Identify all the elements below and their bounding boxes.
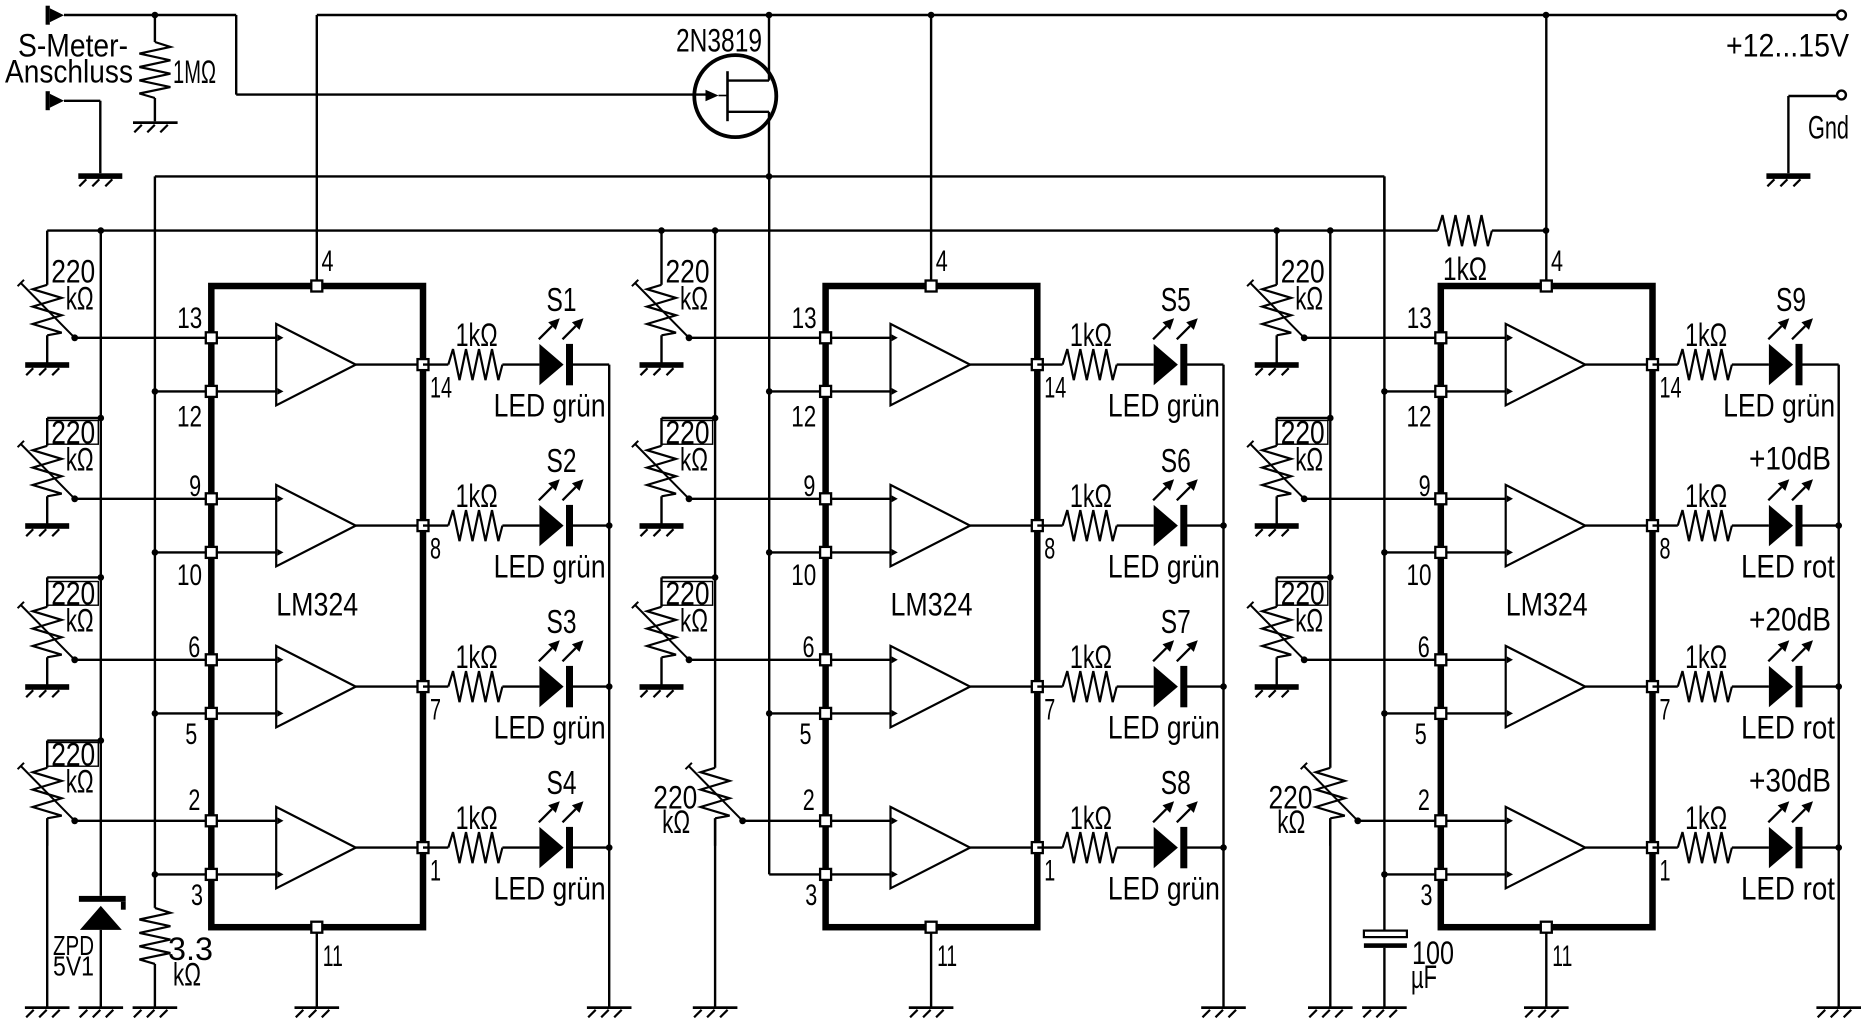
wire input arrow to corner (64, 14, 236, 16)
wire resistor to LED b2 r1 (1117, 524, 1154, 526)
op-amp U2A triangle (891, 324, 971, 405)
svg-text:1kΩ: 1kΩ (1070, 317, 1112, 353)
svg-text:12: 12 (1407, 400, 1432, 433)
IC3 pin 1 (1647, 842, 1658, 853)
junction chain pin b2 r2 (766, 710, 773, 717)
op-amp U2C triangle (891, 646, 971, 727)
trimmer P2 b2 (220k) (632, 418, 692, 524)
svg-text:1kΩ: 1kΩ (1070, 478, 1112, 514)
label 1k b3 r2 (1685, 639, 1727, 675)
LED S2 (539, 505, 573, 546)
label P4 220 b2 (653, 779, 697, 815)
label pin 14 b3 (1660, 372, 1682, 405)
svg-text:11: 11 (1552, 940, 1572, 973)
LED arrows S4 (539, 801, 584, 822)
label LED gruen b1 r2 (494, 710, 606, 746)
wire opamp out to pin 14 b2 (970, 363, 1037, 365)
resistor 1M lower lead (154, 98, 156, 121)
svg-text:8: 8 (430, 533, 441, 566)
junction ref rail/pot1 b2 (658, 227, 665, 234)
IC3 pin4 wire to +12V (1545, 15, 1547, 286)
LED arrows S7 (1153, 640, 1198, 661)
IC2 pin 1 (1032, 842, 1043, 853)
wire LED to cathode bus b3 r3 (1801, 846, 1838, 848)
label 1k b2 r0 (1070, 317, 1112, 353)
U2A +input mark (892, 334, 898, 341)
label LM324 IC1 (276, 587, 358, 623)
IC3 non-inv input chain wire (1383, 176, 1385, 930)
svg-text:6: 6 (803, 631, 815, 664)
label Anschluss (5, 54, 133, 90)
label LED gruen b1 r3 (494, 871, 606, 907)
wire LED to cathode bus b3 r2 (1801, 685, 1838, 687)
Gnd terminal (1837, 91, 1846, 100)
wire jog to P3 b1 (47, 576, 101, 578)
junction bus b2 r3 (1220, 844, 1227, 851)
svg-text:S2: S2 (547, 442, 577, 479)
label P3 220 b2 (666, 575, 710, 611)
Q1 source stub (728, 111, 770, 113)
wire -input pin3 b2 (826, 873, 891, 875)
pot chain wire block1 (100, 231, 102, 741)
svg-text:kΩ: kΩ (1277, 804, 1305, 840)
label pin 7 b3 (1660, 694, 1671, 727)
svg-text:6: 6 (1418, 631, 1430, 664)
svg-text:S9: S9 (1776, 281, 1806, 318)
svg-text:1MΩ: 1MΩ (173, 54, 216, 90)
zener wire from pot chain (100, 741, 102, 896)
Gnd wire (1788, 96, 1837, 173)
transistor Q1 2N3819 label (676, 23, 762, 59)
label S-Meter- (18, 28, 128, 64)
wire chain to -input b3 r0 (1384, 390, 1440, 392)
svg-text:kΩ: kΩ (680, 280, 708, 316)
signal rail drop to IC3 chain (1383, 176, 1385, 230)
label P2 kOhm b1 (66, 441, 94, 477)
label pin 9 b1 (189, 470, 201, 503)
junction pot chain P2 b1 (98, 415, 105, 422)
label S9 (1776, 281, 1806, 318)
frame P3 value b1 (47, 582, 98, 606)
IC2 pin 4 (926, 281, 937, 292)
label 1k b1 r2 (456, 639, 498, 675)
label pin 3 b1 (191, 879, 203, 912)
op-amp U1C triangle (276, 646, 356, 727)
svg-text:4: 4 (1551, 245, 1563, 278)
label pin 14 b2 (1044, 372, 1066, 405)
svg-text:1kΩ: 1kΩ (1070, 800, 1112, 836)
junction ref rail/pot1 b3 (1273, 227, 1280, 234)
IC3 pin 2 (1435, 815, 1446, 826)
frame P3 value b3 (1277, 582, 1328, 606)
label pin 10 b3 (1407, 559, 1432, 592)
IC1 pin 11 (311, 922, 322, 933)
svg-text:LM324: LM324 (1506, 587, 1588, 623)
IC2 pin 10 (820, 547, 831, 558)
label S3 (547, 603, 577, 640)
label pin 13 b2 (792, 302, 817, 335)
frame P2 value b1 (47, 421, 98, 445)
junction chain pin b3 r3 (1381, 871, 1388, 878)
zener wire to ground (100, 930, 102, 1007)
trimmer P4 b1 (220k) (18, 741, 79, 846)
svg-text:kΩ: kΩ (66, 763, 94, 799)
wire wiper P3 to pin b1 (75, 659, 212, 661)
IC2 pin4 wire to +12V (930, 15, 932, 286)
junction rail/1k-IC3 (1543, 12, 1550, 19)
ground cathode bus b1 (587, 1006, 632, 1017)
op-amp IC3 LM324 box (1441, 286, 1653, 927)
LED S3 (539, 666, 573, 707)
ground under P2 b3 (1255, 523, 1299, 536)
IC3 pin 4 (1541, 281, 1552, 292)
svg-text:S3: S3 (547, 603, 577, 640)
capacitor C1 100u bottom plate (1364, 943, 1407, 948)
IC3 pin11 wire to ground (1545, 927, 1547, 1006)
svg-text:S5: S5 (1161, 281, 1191, 318)
svg-text:7: 7 (1044, 694, 1055, 727)
wire LED to cathode bus b1 r0 (572, 363, 609, 365)
label LED gruen b2 r0 (1108, 388, 1220, 424)
IC3 pin 10 (1435, 547, 1446, 558)
label pin 10 b2 (791, 559, 816, 592)
wire +input pin2 b2 (826, 820, 891, 822)
ground under P1 b2 (640, 362, 684, 375)
IC3 pin 8 (1647, 520, 1658, 531)
label +10dB (1749, 441, 1831, 477)
svg-text:kΩ: kΩ (1295, 280, 1323, 316)
U1B -input mark (277, 549, 283, 556)
svg-text:LED rot: LED rot (1741, 871, 1835, 907)
resistor 1k out b3 r2 (1678, 671, 1732, 702)
label pin 4 IC3 (1551, 245, 1563, 278)
wire opamp out to pin 1 b3 (1585, 846, 1652, 848)
wire jog to P4 b1 (47, 739, 101, 741)
junction chain pin b1 r2 (152, 710, 159, 717)
IC1 pin 2 (206, 815, 217, 826)
frame P3 value b2 (662, 582, 713, 606)
label pin 3 b3 (1421, 879, 1433, 912)
wire chain to -input b1 r2 (155, 712, 211, 714)
frame P4 value b1 (47, 743, 98, 767)
resistor 1k out b1 r1 (448, 510, 502, 541)
wire pin1 to resistor b3 (1653, 846, 1678, 848)
junction chain pin b1 r3 (152, 871, 159, 878)
wire +input pin13 b2 (826, 337, 891, 339)
label 1k top right (1443, 251, 1487, 287)
U3A +input mark (1507, 334, 1513, 341)
svg-text:2: 2 (188, 784, 200, 817)
svg-text:1kΩ: 1kΩ (1685, 800, 1727, 836)
wire +input pin6 b3 (1441, 659, 1506, 661)
svg-text:LED grün: LED grün (494, 871, 606, 907)
pot chain wire block3 (1329, 231, 1331, 768)
svg-text:LED grün: LED grün (494, 549, 606, 585)
junction chain pin b3 r0 (1381, 388, 1388, 395)
label LED gruen b3 r0 (1723, 388, 1835, 424)
svg-text:3: 3 (805, 879, 817, 912)
svg-text:Anschluss: Anschluss (5, 54, 133, 90)
wire resistor to LED b3 r1 (1732, 524, 1769, 526)
svg-text:LED grün: LED grün (494, 388, 606, 424)
junction chain pin b1 r0 (152, 388, 159, 395)
svg-text:9: 9 (1419, 470, 1431, 503)
wire opamp out to pin 14 b1 (356, 363, 423, 365)
trimmer P3 b2 (220k) (632, 577, 692, 684)
LED arrows S8 (1153, 801, 1198, 822)
svg-text:S4: S4 (547, 764, 577, 801)
svg-text:1: 1 (1044, 855, 1055, 888)
label P1 kOhm b2 (680, 280, 708, 316)
svg-text:13: 13 (177, 302, 202, 335)
wire resistor to LED b1 r0 (502, 363, 539, 365)
label 1k b2 r3 (1070, 800, 1112, 836)
label pin 2 b3 (1418, 784, 1430, 817)
label LM324 IC2 (891, 587, 973, 623)
wire LED to cathode bus b3 r0 (1801, 363, 1838, 365)
svg-text:LED grün: LED grün (1723, 388, 1835, 424)
wire wiper P2 to pin b1 (75, 498, 212, 500)
wire opamp out to pin 8 b3 (1585, 524, 1652, 526)
ground under cap (1362, 1006, 1407, 1017)
label LED rot b3 r2 (1741, 710, 1835, 746)
label pin 12 b3 (1407, 400, 1432, 433)
wire chain corner to pin3 b2 (769, 873, 825, 875)
IC1 pin11 wire to ground (316, 927, 318, 1006)
junction pot chain P3 b3 (1327, 574, 1334, 581)
label ZPD (53, 930, 94, 961)
IC3 pin 9 (1435, 493, 1446, 504)
label P2 kOhm b3 (1295, 441, 1323, 477)
svg-text:S6: S6 (1161, 442, 1191, 479)
Q1 drain wire to +12V rail (768, 15, 770, 81)
trimmer P2 b3 (220k) (1247, 418, 1308, 524)
svg-text:LED grün: LED grün (1108, 871, 1220, 907)
LED S4 (539, 827, 573, 868)
label pin 13 b1 (177, 302, 202, 335)
label pin 11 IC3 (1552, 940, 1572, 973)
zener D1 anode triangle (80, 906, 122, 930)
label S2 (547, 442, 577, 479)
LED S8 (1154, 827, 1188, 868)
LED arrows S9 (1768, 318, 1813, 339)
ground at pin11 IC2 (909, 1006, 954, 1017)
frame P2 value b2 (662, 421, 713, 445)
wire down to JFET gate level (235, 15, 237, 95)
wire wiper P4 to pin b3 (1358, 820, 1441, 822)
wire jog to P2 b1 (47, 417, 101, 419)
svg-text:+20dB: +20dB (1749, 602, 1831, 638)
wire pin14 to resistor b1 (423, 363, 448, 365)
label pin 5 b2 (800, 718, 812, 751)
label P2 kOhm b2 (680, 441, 708, 477)
wire jog to P3 b3 (1277, 576, 1331, 578)
IC3 pin 14 (1647, 359, 1658, 370)
svg-text:+30dB: +30dB (1749, 763, 1831, 799)
label pin 3 b2 (805, 879, 817, 912)
junction chain pin b2 r0 (766, 388, 773, 395)
wire pin14 to resistor b2 (1037, 363, 1062, 365)
trimmer P3 b3 (220k) (1247, 577, 1308, 684)
wire -input pin12 b1 (211, 390, 276, 392)
svg-text:6: 6 (188, 631, 200, 664)
trimmer P3 b1 (220k) (18, 577, 79, 684)
label S8 (1161, 764, 1191, 801)
wire chain to -input b2 r0 (769, 390, 825, 392)
label pin 12 b2 (791, 400, 816, 433)
label P3 kOhm b2 (680, 602, 708, 638)
svg-text:kΩ: kΩ (173, 957, 201, 993)
input ground reference arrow (46, 91, 64, 110)
LED S6 (1154, 505, 1188, 546)
LED arrows S6 (1153, 479, 1198, 500)
wire 1k to +12V drop (1492, 229, 1546, 231)
U1C -input mark (277, 710, 283, 717)
ground at pin11 IC1 (295, 1006, 340, 1017)
wire wiper P2 to pin b3 (1304, 498, 1441, 500)
label pin 6 b3 (1418, 631, 1430, 664)
junction bus b1 r1 (606, 522, 613, 529)
svg-text:8: 8 (1660, 533, 1671, 566)
IC3 pin 7 (1647, 681, 1658, 692)
LED +20dB (1769, 666, 1803, 707)
wire chain to -input b1 r3 (155, 873, 211, 875)
ground under P4 b1 (25, 1006, 70, 1017)
op-amp U1A triangle (276, 324, 356, 405)
junction bus b2 r1 (1220, 522, 1227, 529)
ground at pin11 IC3 (1524, 1006, 1569, 1017)
wire P4 b1 to ground (46, 818, 48, 1006)
wire resistor to LED b3 r0 (1732, 363, 1769, 365)
svg-text:7: 7 (1660, 694, 1671, 727)
op-amp U3C triangle (1506, 646, 1586, 727)
label pin 4 IC1 (322, 245, 334, 278)
svg-text:kΩ: kΩ (66, 602, 94, 638)
U3A -input mark (1507, 388, 1513, 395)
wire opamp out to pin 7 b2 (970, 685, 1037, 687)
label P4 220 b3 (1269, 779, 1313, 815)
junction bus b2 r2 (1220, 683, 1227, 690)
svg-text:11: 11 (937, 940, 957, 973)
wire LED to cathode bus b1 r3 (572, 846, 609, 848)
wire jog to P2 b2 (662, 417, 716, 419)
svg-text:2: 2 (1418, 784, 1430, 817)
wire resistor to LED b3 r2 (1732, 685, 1769, 687)
label pin 5 b1 (185, 718, 197, 751)
resistor 1k out b3 r3 (1678, 832, 1732, 863)
resistor R 1M lead (154, 15, 156, 42)
LED S9 (1769, 344, 1803, 385)
label +30dB (1749, 763, 1831, 799)
svg-text:Gnd: Gnd (1808, 110, 1849, 146)
svg-text:3: 3 (191, 879, 203, 912)
svg-text:kΩ: kΩ (680, 602, 708, 638)
wire -input pin10 b2 (826, 551, 891, 553)
ground under 1M (133, 121, 178, 132)
resistor 3.3k zigzag (139, 908, 170, 964)
resistor 1M zigzag (139, 42, 170, 98)
wire jog to P2 b3 (1277, 417, 1331, 419)
svg-text:kΩ: kΩ (66, 441, 94, 477)
ground cathode bus b2 (1201, 1006, 1246, 1017)
wire chain to -input b2 r1 (769, 551, 825, 553)
svg-text:LED grün: LED grün (1108, 388, 1220, 424)
svg-text:LED grün: LED grün (1108, 710, 1220, 746)
wire LED to cathode bus b2 r3 (1186, 846, 1223, 848)
svg-text:1: 1 (1660, 855, 1671, 888)
svg-text:kΩ: kΩ (66, 280, 94, 316)
wire arrow2 down (99, 101, 101, 174)
label 1k b1 r3 (456, 800, 498, 836)
svg-text:1kΩ: 1kΩ (456, 639, 498, 675)
svg-text:S8: S8 (1161, 764, 1191, 801)
svg-text:LED grün: LED grün (494, 710, 606, 746)
wire wiper P4 to pin b1 (75, 820, 212, 822)
trimmer P2 b1 (220k) (18, 418, 79, 524)
junction bus b3 r3 (1835, 844, 1842, 851)
label P3 kOhm b1 (66, 602, 94, 638)
trimmer P4 b2 (220k) (686, 763, 746, 846)
svg-text:10: 10 (791, 559, 816, 592)
wire +input pin9 b1 (211, 498, 276, 500)
junction signal rail/source (766, 173, 773, 180)
U1B +input mark (277, 495, 283, 502)
label pin 5 b3 (1415, 718, 1427, 751)
label 5V1 (53, 951, 94, 982)
cathode bus b1 (608, 365, 610, 1007)
svg-text:12: 12 (177, 400, 202, 433)
label 1k b3 r3 (1685, 800, 1727, 836)
label 1k b2 r1 (1070, 478, 1112, 514)
label pin 8 b1 (430, 533, 441, 566)
label pin 1 b3 (1660, 855, 1671, 888)
op-amp IC1 LM324 box (211, 286, 423, 927)
junction ref rail/pot chain b1 (98, 227, 105, 234)
wire opamp out to pin 8 b1 (356, 524, 423, 526)
IC1 pin 7 (418, 681, 429, 692)
wire -input pin12 b3 (1441, 390, 1506, 392)
U2D -input mark (892, 871, 898, 878)
label +12...15V (1726, 28, 1850, 64)
U2B -input mark (892, 549, 898, 556)
svg-text:LED grün: LED grün (1108, 549, 1220, 585)
svg-text:1kΩ: 1kΩ (1443, 251, 1487, 287)
svg-text:4: 4 (936, 245, 948, 278)
wire -input pin5 b2 (826, 712, 891, 714)
wire jog to P3 b2 (662, 576, 716, 578)
wire chain to -input b3 r3 (1384, 873, 1440, 875)
svg-text:14: 14 (1660, 372, 1682, 405)
op-amp U2D triangle (891, 807, 971, 888)
trimmer P4 b3 (220k) (1301, 763, 1362, 846)
wire pin7 to resistor b1 (423, 685, 448, 687)
label pin 7 b1 (430, 694, 441, 727)
LED +30dB (1769, 827, 1803, 868)
wire +input pin9 b3 (1441, 498, 1506, 500)
label 3.3 (168, 931, 213, 967)
Q1 source wire down (768, 112, 770, 177)
svg-text:1kΩ: 1kΩ (1685, 639, 1727, 675)
label LM324 IC3 (1506, 587, 1588, 623)
label pin 4 IC2 (936, 245, 948, 278)
trimmer P1 b2 (220k) (632, 231, 692, 363)
signal rail from JFET source (155, 175, 1385, 177)
IC2 pin 7 (1032, 681, 1043, 692)
label P1 220 b3 (1281, 253, 1325, 289)
svg-text:12: 12 (791, 400, 816, 433)
label LED gruen b1 r0 (494, 388, 606, 424)
IC1 non-inv input chain wire (154, 176, 156, 908)
